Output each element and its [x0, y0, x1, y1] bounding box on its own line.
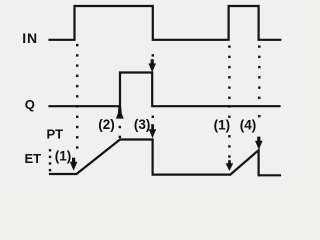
svg-text:(3): (3): [134, 117, 151, 132]
svg-text:Q: Q: [25, 97, 35, 112]
wire IN waveform: [50, 6, 281, 40]
svg-text:(4): (4): [240, 117, 256, 132]
arrow down at (4) ET ramp top: [255, 137, 263, 150]
wire dotted line x=77 (IN rise 1): [76, 44, 78, 149]
wire dotted line x=153 (IN fall 1): [152, 54, 154, 118]
svg-text:PT: PT: [47, 126, 64, 141]
arrow down at Q falling edge: [148, 59, 156, 72]
svg-text:IN: IN: [22, 30, 38, 46]
wire ET waveform: [50, 140, 280, 176]
arrow down at (1) left ET ramp start: [70, 158, 78, 171]
arrow up at (2) Q rising edge: [116, 107, 124, 119]
svg-text:(2): (2): [98, 117, 115, 132]
wire dotted line x=120 (Q rise / PT reached): [119, 126, 121, 138]
svg-text:ET: ET: [25, 151, 42, 166]
wire dotted line x=50 (ET axis start): [49, 149, 51, 171]
wire dotted line x=229 (IN rise 2): [228, 45, 230, 157]
arrow down at (1) right ET ramp start: [226, 160, 234, 171]
wire dotted line x=259 (IN fall 2): [258, 45, 260, 117]
wire Q waveform: [50, 73, 280, 107]
arrow down at (3) ET plateau end: [149, 124, 156, 138]
svg-text:(1): (1): [214, 117, 231, 132]
svg-text:(1): (1): [55, 149, 72, 164]
